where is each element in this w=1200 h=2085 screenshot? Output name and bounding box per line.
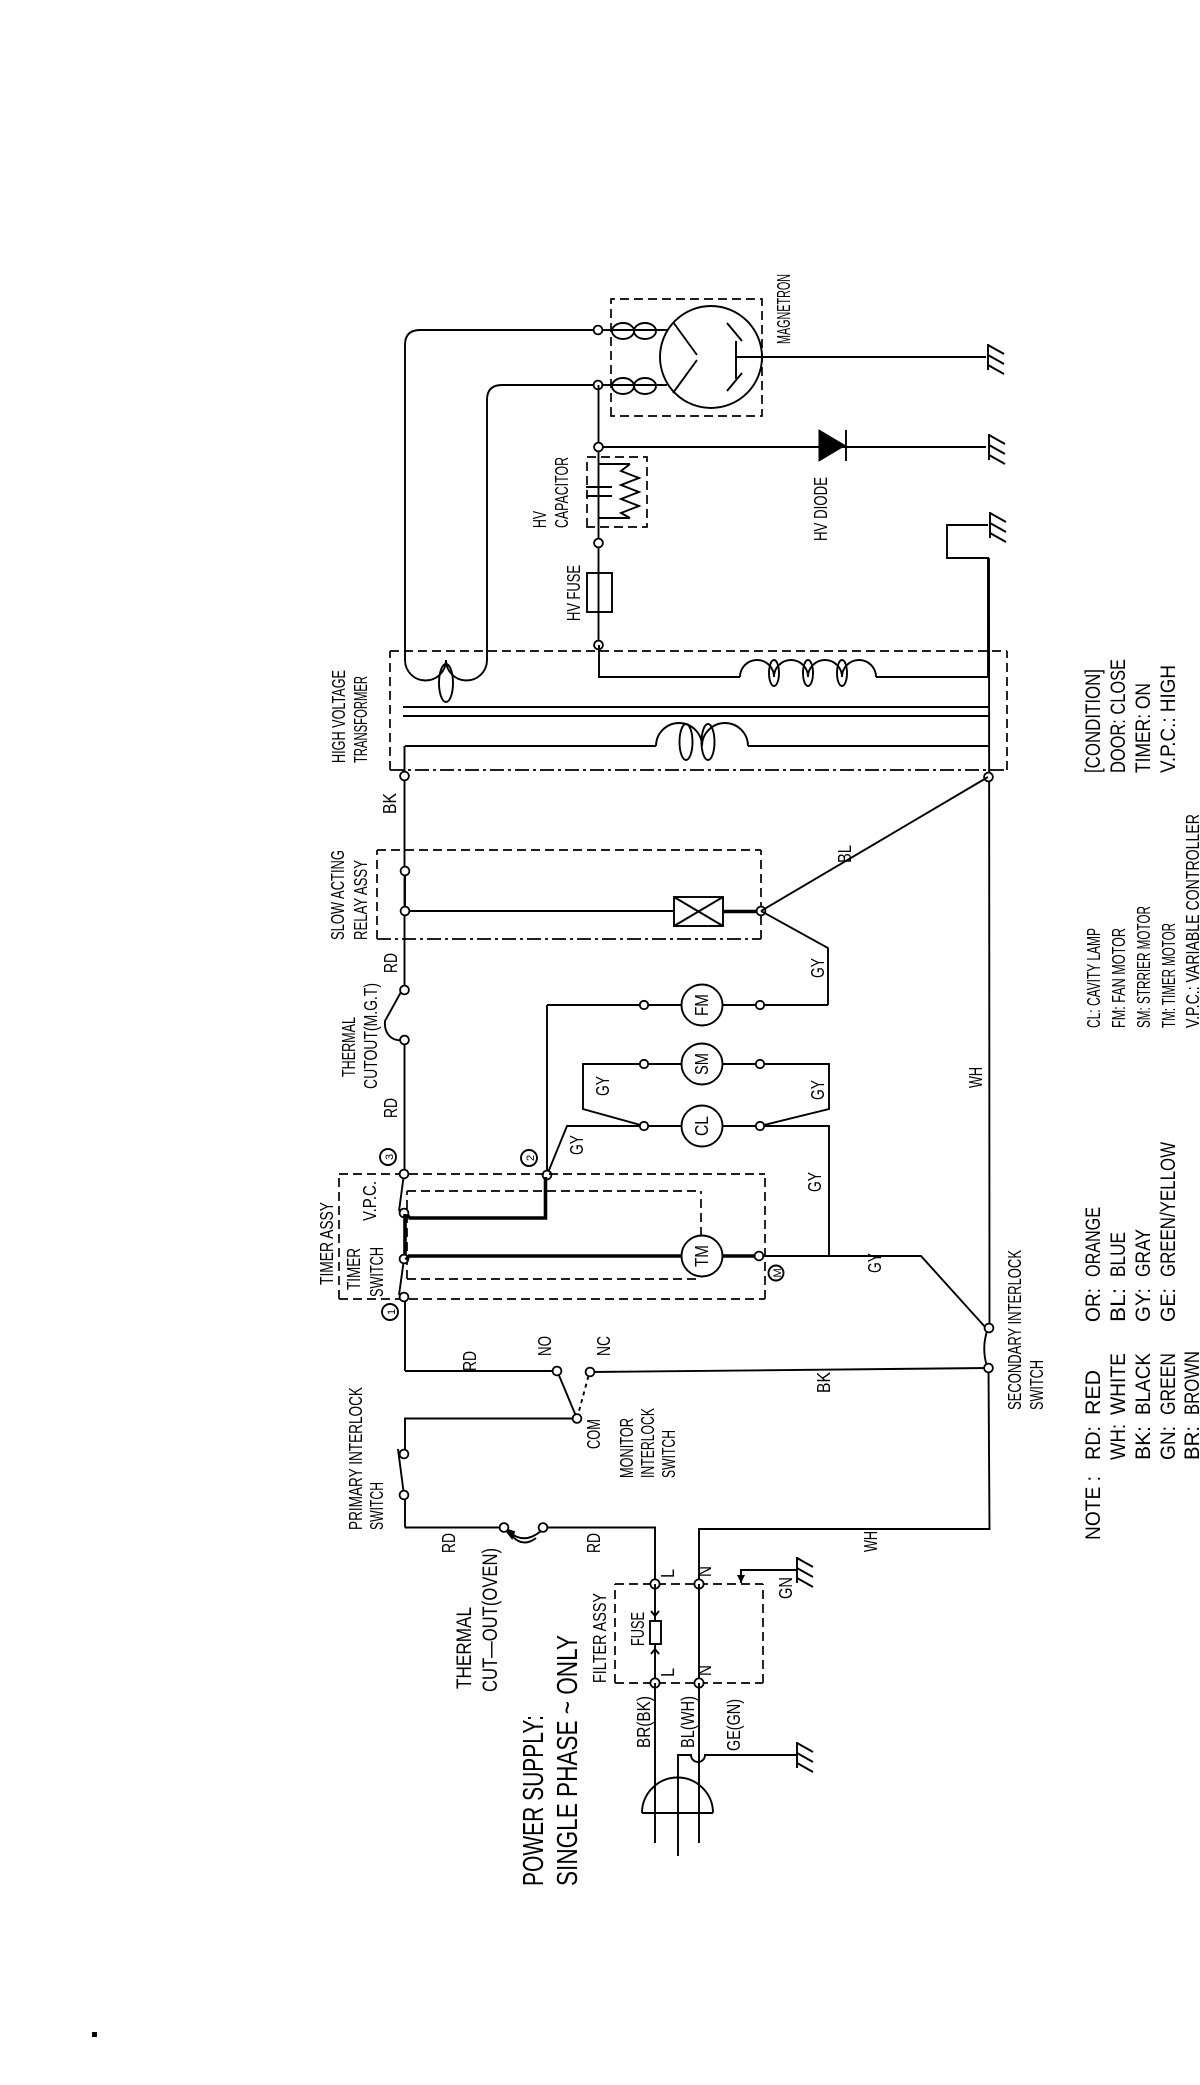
label 3 circled (380, 1149, 396, 1165)
svg-text:[CONDITION]: [CONDITION] (1082, 669, 1105, 773)
svg-text:SECONDARY INTERLOCK: SECONDARY INTERLOCK (1005, 1250, 1025, 1410)
svg-text:BR:: BR: (1181, 1426, 1200, 1460)
switch monitor blade dashed (577, 1374, 589, 1419)
svg-text:HV FUSE: HV FUSE (564, 565, 584, 621)
switch VPC blade (399, 1174, 404, 1211)
label CONDITION block (1082, 659, 1180, 773)
svg-text:GN:: GN: (1157, 1426, 1180, 1460)
svg-text:BLACK: BLACK (1132, 1353, 1155, 1415)
svg-text:SM: SM (692, 1053, 712, 1075)
wire magnetron output to ground (736, 356, 986, 358)
node filter L out (650, 1678, 659, 1687)
svg-text:SWITCH: SWITCH (1027, 1360, 1047, 1410)
wire CL top to GY node2 (547, 1126, 682, 1175)
svg-text:3: 3 (384, 1154, 396, 1160)
svg-text:BK:: BK: (1132, 1426, 1155, 1460)
svg-text:L: L (658, 1569, 678, 1578)
node SM bottom (756, 1060, 764, 1068)
magnetron anode vanes X (673, 322, 742, 393)
arrow GN tap (737, 1575, 745, 1583)
vpc inner dashed box (407, 1191, 701, 1279)
svg-text:GE:: GE: (1157, 1288, 1180, 1322)
filament choke coil 1 (608, 323, 662, 339)
svg-text:RD: RD (460, 1351, 480, 1371)
wire filament lead 2 (598, 384, 614, 386)
svg-text:MAGNETRON: MAGNETRON (774, 274, 794, 344)
node primary interlock right (400, 1450, 409, 1459)
svg-text:RD: RD (439, 1533, 459, 1553)
relay coil box with X (674, 897, 723, 926)
node monitor NC (586, 1368, 595, 1377)
svg-text:GREEN: GREEN (1157, 1353, 1180, 1415)
timer assy outer dashed box (339, 1174, 765, 1299)
svg-text:N: N (695, 1665, 715, 1676)
wire primary lead from rail (405, 745, 656, 747)
resistor bleed right stub (598, 463, 630, 465)
svg-text:COM: COM (584, 1419, 604, 1449)
node filter L in (650, 1579, 659, 1588)
node transformer WH tap (BL) (984, 773, 993, 782)
svg-text:BROWN: BROWN (1181, 1351, 1200, 1415)
svg-text:TM: TIMER MOTOR: TM: TIMER MOTOR (1159, 923, 1179, 1028)
svg-text:CAPACITOR: CAPACITOR (552, 457, 572, 528)
wire GY funnel relay to FM (761, 911, 828, 1005)
svg-text:NOTE :: NOTE : (1082, 1476, 1105, 1540)
stray dot artifact (92, 2032, 97, 2037)
svg-text:HIGH VOLTAGE: HIGH VOLTAGE (329, 670, 349, 763)
motor TM circle (682, 1236, 723, 1277)
svg-text:RED: RED (1082, 1370, 1105, 1415)
svg-text:TM: TM (692, 1245, 712, 1267)
svg-text:V.P.C.: HIGH: V.P.C.: HIGH (1157, 665, 1180, 773)
ground GN filter (797, 1557, 813, 1587)
lamp CL circle (682, 1106, 723, 1147)
fuse clip arrows (651, 1611, 659, 1654)
node relay contact left (401, 907, 410, 916)
fuse HV rectangle (587, 573, 612, 612)
node secondary interlock top (985, 1324, 994, 1333)
svg-text:MONITOR: MONITOR (617, 1418, 637, 1478)
svg-text:2: 2 (525, 1155, 537, 1161)
svg-text:BL:: BL: (1107, 1288, 1130, 1322)
thermal cutout MGT blade (385, 992, 404, 1040)
wire top rail: timer assy to transformer primary (404, 746, 407, 1371)
svg-text:WH: WH (861, 1531, 881, 1552)
ground HV diode (989, 434, 1005, 464)
svg-text:GY: GY (808, 958, 828, 978)
node CL bottom (756, 1122, 764, 1130)
label 1 circled (382, 1304, 398, 1320)
node magnetron pin F (594, 326, 603, 335)
wire L filter out (654, 1644, 656, 1683)
wire CL bottom to TM row (722, 1126, 829, 1255)
svg-text:THERMAL: THERMAL (453, 1607, 476, 1689)
svg-text:GY: GY (593, 1076, 613, 1096)
svg-text:WHITE: WHITE (1107, 1353, 1130, 1415)
label NOTE wire colour block (1082, 1142, 1200, 1540)
node SM top (640, 1060, 648, 1068)
wire earth lead with hop (678, 1755, 797, 1856)
svg-text:ORANGE: ORANGE (1082, 1207, 1105, 1277)
node secondary interlock bottom (984, 1364, 993, 1373)
svg-text:FILTER ASSY: FILTER ASSY (590, 1593, 610, 1683)
wire BK line: monitor NC to secondary interlock (590, 1368, 989, 1372)
relay assy dashed box (377, 850, 761, 939)
wire HV diode branch (603, 446, 986, 448)
svg-text:BK: BK (814, 1372, 834, 1393)
wire monitor branch vertical (RD) (405, 1370, 556, 1372)
transformer dashed box right edge (390, 650, 1007, 652)
svg-text:GY: GY (805, 1172, 825, 1192)
capacitor HV dashed box (587, 457, 647, 527)
svg-text:HV DIODE: HV DIODE (811, 477, 831, 541)
svg-text:RD:: RD: (1082, 1426, 1105, 1460)
svg-text:DOOR: CLOSE: DOOR: CLOSE (1107, 659, 1130, 773)
node MGT right (400, 986, 409, 995)
svg-text:GY: GY (808, 1080, 828, 1100)
wire relay coil feed (409, 910, 674, 912)
wire WH rail: transformer to power inlet (699, 558, 990, 1584)
svg-text:GN: GN (776, 1577, 796, 1599)
node timer switch bottom (400, 1293, 409, 1302)
wire HV secondary to common (876, 558, 988, 677)
wire TM to node M (thick) (722, 1254, 757, 1258)
svg-text:NO: NO (535, 1336, 555, 1356)
wire N to plug (698, 1683, 700, 1843)
node timer switch top (400, 1255, 409, 1264)
wire coil1 to tube (658, 329, 667, 331)
switch timer blade (399, 1259, 404, 1295)
capacitor HV plates (586, 487, 612, 496)
label 2 circled (521, 1150, 537, 1166)
node HV fuse to transformer (594, 641, 603, 650)
svg-text:CUTOUT(M.G.T): CUTOUT(M.G.T) (361, 983, 381, 1089)
node VPC lower (400, 1209, 409, 1218)
svg-text:THERMAL: THERMAL (339, 1017, 359, 1077)
svg-text:M: M (772, 1268, 784, 1277)
node M (755, 1252, 764, 1261)
node FM top (640, 1001, 648, 1009)
svg-text:SINGLE PHASE ~ ONLY: SINGLE PHASE ~ ONLY (552, 1635, 584, 1886)
wire top rail segment relay contact (404, 871, 406, 911)
svg-text:FM: FAN MOTOR: FM: FAN MOTOR (1109, 928, 1129, 1028)
svg-text:RD: RD (381, 1098, 401, 1118)
ground magnetron output (988, 344, 1004, 374)
node monitor COM (573, 1414, 582, 1423)
wire L through filter (654, 1584, 656, 1621)
svg-text:SLOW ACTING: SLOW ACTING (328, 850, 348, 940)
wire secondary ground jog (947, 525, 989, 558)
wire GN earth tap (741, 1570, 797, 1583)
wire HV line fuse node to magnetron pin (598, 385, 600, 645)
node MGT left (400, 1036, 409, 1045)
filament choke coil 2 (608, 378, 662, 394)
svg-text:HV: HV (530, 511, 550, 528)
svg-text:TIMER ASSY: TIMER ASSY (317, 1202, 337, 1285)
magnetron tube circle (660, 306, 762, 408)
wire COM return to primary interlock rail (405, 1419, 577, 1452)
svg-text:SM: STRRIER MOTOR: SM: STRRIER MOTOR (1134, 906, 1154, 1028)
wire primary lead to WH rail (748, 745, 989, 747)
svg-text:TRANSFORMER: TRANSFORMER (351, 676, 371, 763)
wire L line: thermal cutout to filter (405, 1527, 504, 1529)
svg-text:GREEN/YELLOW: GREEN/YELLOW (1157, 1142, 1180, 1277)
transformer HV secondary winding (740, 660, 876, 686)
svg-text:SWITCH: SWITCH (367, 1482, 387, 1530)
svg-text:L: L (658, 1668, 678, 1677)
svg-text:1: 1 (386, 1309, 398, 1315)
resistor bleed zigzag (621, 464, 639, 518)
svg-text:BLUE: BLUE (1107, 1232, 1130, 1277)
wire HV secondary lead (599, 645, 740, 677)
svg-text:OR:: OR: (1082, 1288, 1105, 1322)
transformer primary winding (656, 723, 748, 760)
svg-text:CUT—OUT(OVEN): CUT—OUT(OVEN) (479, 1548, 502, 1692)
transformer filament winding (405, 660, 487, 702)
node HV capacitor tap (594, 539, 603, 548)
svg-text:GE(GN): GE(GN) (724, 1699, 744, 1751)
svg-text:CL: CL (692, 1116, 712, 1136)
wire filament lead 1 (598, 329, 614, 331)
node GY bus junction 2 (543, 1171, 552, 1180)
wire GY bus node2 to FM column (546, 1005, 548, 1175)
magnetron dashed box (611, 299, 762, 416)
motor SM circle (682, 1044, 723, 1085)
transformer dashed box top edge (389, 651, 391, 770)
transformer core lines (403, 707, 989, 716)
transformer dashed box bottom edge (1006, 651, 1008, 770)
wire N through filter (698, 1584, 700, 1683)
wire filament line FA to transformer (487, 385, 594, 660)
svg-text:GY: GY (865, 1253, 885, 1273)
svg-text:BL: BL (835, 845, 855, 863)
magnetron cathode bar (735, 341, 737, 379)
node primary interlock left (400, 1491, 409, 1500)
node oven cutout top (500, 1523, 509, 1532)
svg-text:SWITCH: SWITCH (367, 1247, 387, 1297)
wire BL diagonal to transformer (761, 777, 988, 911)
label M circled (769, 1266, 785, 1281)
svg-text:WH: WH (966, 1067, 986, 1088)
switch monitor blade solid (558, 1373, 577, 1419)
label legend abbreviations block (1084, 814, 1200, 1028)
svg-text:PRIMARY INTERLOCK: PRIMARY INTERLOCK (346, 1387, 366, 1530)
node magnetron pin FA (594, 381, 603, 390)
node oven cutout bottom (539, 1523, 548, 1532)
svg-text:TIMER: ON: TIMER: ON (1132, 683, 1155, 773)
svg-text:TIMER: TIMER (344, 1248, 364, 1290)
node relay contact right (401, 867, 410, 876)
filter assy dashed box (615, 1584, 763, 1683)
svg-text:N: N (695, 1566, 715, 1577)
fuse filter rectangle (650, 1621, 661, 1644)
svg-text:FUSE: FUSE (628, 1612, 648, 1646)
node monitor NO (553, 1367, 562, 1376)
wire filament line F to transformer (405, 330, 594, 660)
svg-text:BK: BK (380, 793, 400, 814)
svg-text:INTERLOCK: INTERLOCK (638, 1408, 658, 1478)
svg-text:POWER SUPPLY:: POWER SUPPLY: (518, 1715, 550, 1886)
svg-text:RD: RD (584, 1533, 604, 1553)
transformer dashed box left edge (dash-dot) (390, 769, 1006, 771)
svg-text:GRAY: GRAY (1132, 1229, 1155, 1277)
resistor bleed left stub (598, 517, 630, 519)
wire thick rail VPC node to timer switch node (403, 1214, 407, 1258)
svg-text:V.P.C.: V.P.C. (360, 1181, 380, 1221)
svg-text:GY:: GY: (1132, 1288, 1155, 1322)
wire timer switch to TM (thick) (406, 1256, 682, 1260)
node VPC terminal 3 (400, 1170, 409, 1179)
diode HV (cathode bar and triangle) (819, 430, 846, 461)
node CL top (640, 1122, 648, 1130)
switch thermal cutout oven arc blade (505, 1529, 541, 1543)
svg-text:NC: NC (594, 1336, 614, 1356)
svg-text:RELAY ASSY: RELAY ASSY (351, 860, 371, 940)
wire TM row to secondary interlock (763, 1256, 986, 1328)
wire SM top funnel (583, 1064, 682, 1126)
wire relay coil to node (thick) (723, 910, 759, 914)
svg-text:CL: CAVITY LAMP: CL: CAVITY LAMP (1084, 928, 1104, 1028)
motor FM column wires (547, 1004, 828, 1006)
motor FM circle (682, 985, 723, 1026)
ground earth lead (797, 1742, 813, 1772)
ground transformer common (990, 512, 1006, 542)
node filter N in (694, 1579, 703, 1588)
svg-text:V.P.C.: VARIABLE CONTROLLER: V.P.C.: VARIABLE CONTROLLER (1183, 814, 1200, 1028)
svg-text:FM: FM (692, 994, 712, 1016)
svg-text:WH:: WH: (1107, 1424, 1130, 1460)
node FM bottom (756, 1001, 764, 1009)
node HV diode tap (594, 443, 603, 452)
svg-text:BL(WH): BL(WH) (678, 1696, 698, 1748)
node transformer rail tap (400, 772, 409, 781)
wire SM bottom funnel (722, 1064, 829, 1126)
wire L to plug (654, 1683, 656, 1843)
node filter N out (694, 1678, 703, 1687)
wire VPC to node 2 (thick) (407, 1177, 546, 1218)
plug half disc (642, 1778, 713, 1814)
svg-text:GY: GY (567, 1135, 587, 1155)
switch secondary interlock blade (984, 1328, 988, 1366)
wire coil2 to tube (658, 384, 667, 386)
svg-text:BR(BK): BR(BK) (634, 1696, 654, 1748)
switch primary interlock blade (398, 1449, 404, 1495)
svg-text:SWITCH: SWITCH (659, 1430, 679, 1478)
svg-text:RD: RD (381, 953, 401, 973)
node relay output (757, 907, 766, 916)
